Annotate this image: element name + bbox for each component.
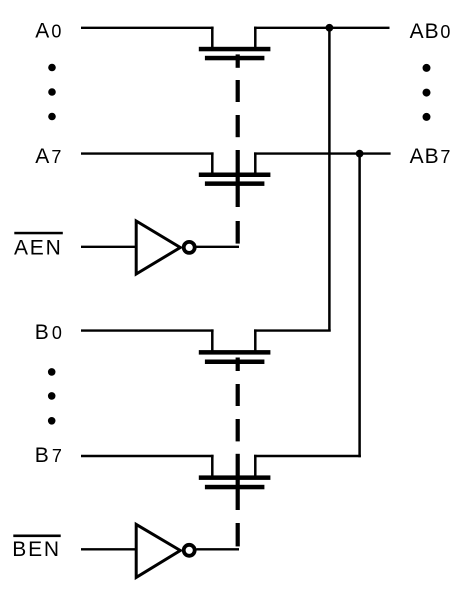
wire Q3 left terminal xyxy=(211,329,214,352)
transistor Q2 gate bar xyxy=(205,181,265,186)
transistor Q1 channel bar xyxy=(199,47,271,52)
svg-text:B0: B0 xyxy=(35,321,62,344)
op-amp U1 inverter triangle xyxy=(136,221,180,274)
wire AEN input xyxy=(81,246,138,248)
ellipsis dots AB column xyxy=(423,64,431,121)
transistor Q2 channel bar xyxy=(199,173,271,178)
wire B0 left rail xyxy=(81,329,214,331)
svg-text:BEN: BEN xyxy=(12,538,61,561)
svg-text:B7: B7 xyxy=(35,444,62,467)
svg-text:AB0: AB0 xyxy=(410,20,451,43)
wire A7 left rail xyxy=(81,152,214,154)
ellipsis dots A column xyxy=(48,64,56,121)
transistor Q3 gate bar xyxy=(205,360,265,365)
wire Q1 left terminal xyxy=(211,27,214,49)
wire Q3 right terminal xyxy=(254,329,257,352)
node AB7 junction dot xyxy=(356,150,364,158)
svg-text:A7: A7 xyxy=(35,145,61,168)
wire Q1 right terminal xyxy=(254,27,257,49)
transistor Q1 gate bar xyxy=(205,56,265,61)
wire Q2 left terminal xyxy=(211,152,214,174)
node AB0 junction dot xyxy=(326,24,334,32)
wire Q2 right terminal xyxy=(254,152,257,174)
svg-text:A0: A0 xyxy=(35,20,61,43)
wire A7 right rail xyxy=(254,152,391,154)
wire B gate dashed line xyxy=(236,358,240,547)
svg-text:AB7: AB7 xyxy=(410,145,451,168)
wire AB7 bus vertical xyxy=(358,154,361,458)
ellipsis dots B column xyxy=(48,368,56,425)
op-amp U1 inverter bubble xyxy=(184,242,195,253)
transistor Q3 channel bar xyxy=(199,350,271,355)
transistor Q4 gate bar xyxy=(205,485,265,490)
wire AB0 bus vertical xyxy=(328,28,331,332)
wire B7 right rail xyxy=(254,455,361,457)
wire Q4 left terminal xyxy=(211,455,214,478)
op-amp U2 inverter bubble xyxy=(184,545,195,556)
wire B0 right rail xyxy=(254,329,331,331)
transistor Q4 channel bar xyxy=(199,475,271,480)
wire AEN output xyxy=(196,246,239,248)
wire B7 left rail xyxy=(81,455,214,457)
wire BEN input xyxy=(81,548,138,550)
wire BEN output xyxy=(196,548,239,550)
op-amp U2 inverter triangle xyxy=(136,524,180,577)
wire A0 left rail xyxy=(81,27,214,29)
node AEN label overline xyxy=(14,232,63,235)
node BEN label overline xyxy=(13,535,60,538)
wire A0 right rail xyxy=(254,27,390,29)
wire A gate dashed line xyxy=(236,54,240,243)
svg-text:AEN: AEN xyxy=(14,236,63,259)
wire Q4 right terminal xyxy=(254,455,257,478)
